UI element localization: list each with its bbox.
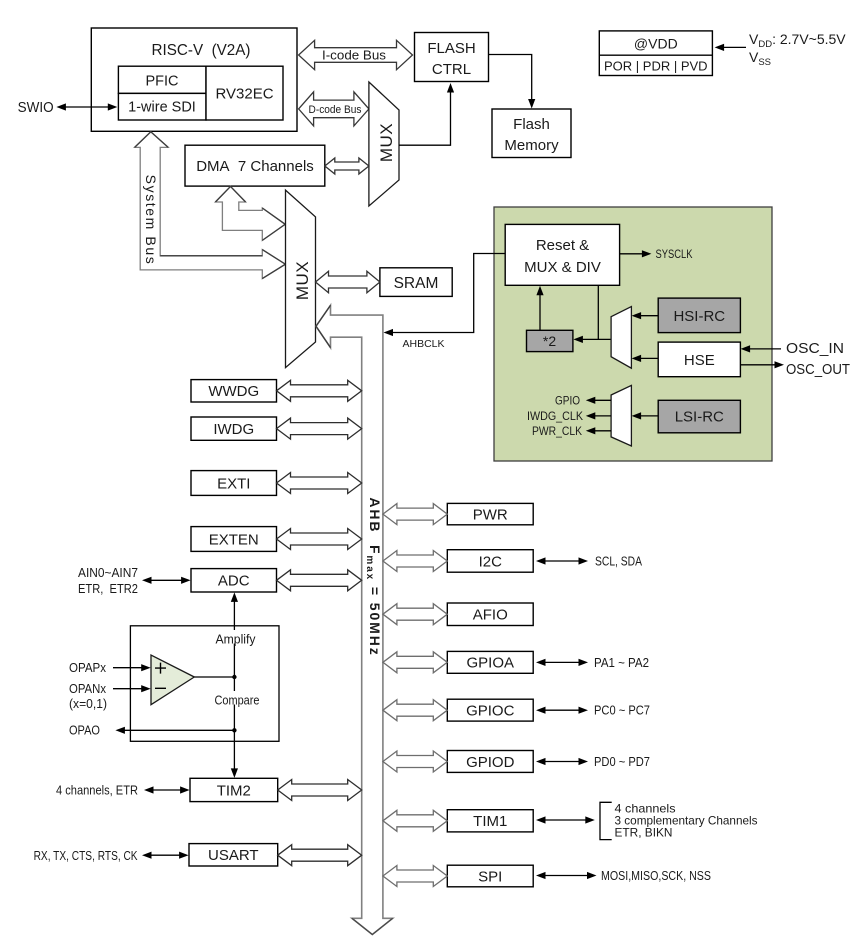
label plus input	[155, 663, 166, 674]
block RISC-V (V2A) CPU	[91, 28, 297, 131]
wire SWIO to 1-wire SDI	[56, 103, 117, 110]
svg-text:AHBCLK: AHBCLK	[403, 338, 445, 350]
svg-text:EXTI: EXTI	[217, 475, 250, 492]
svg-text:GPIO: GPIO	[555, 396, 580, 408]
bus AHB to SPI arrow	[383, 866, 447, 887]
block DMA 7 Channels	[185, 145, 325, 186]
bus AHB to GPIOD arrow	[383, 751, 447, 772]
svg-text:SCL, SDA: SCL, SDA	[595, 555, 643, 569]
svg-text:WWDG: WWDG	[208, 383, 259, 400]
block RV32EC	[206, 66, 283, 120]
bus I-code Bus arrow	[299, 40, 413, 69]
bus DMA to MUX1 arrow	[325, 158, 369, 174]
svg-text:PC0 ~ PC7: PC0 ~ PC7	[594, 704, 650, 718]
wire OPANx input	[113, 685, 151, 692]
bus ADC to AHB arrow	[277, 570, 362, 591]
bus AHB to GPIOA arrow	[383, 652, 447, 673]
block I2C	[447, 550, 533, 573]
svg-text:LSI-RC: LSI-RC	[675, 409, 724, 426]
bus AHB bottom head accent	[352, 918, 393, 934]
bus fork arrow to DMA and MUX2	[215, 186, 285, 240]
svg-text:MUX & DIV: MUX & DIV	[524, 259, 601, 276]
wire HSE to OSC_OUT	[740, 361, 784, 368]
svg-text:PFIC: PFIC	[145, 74, 178, 90]
svg-text:VDD: 2.7V~5.5V: VDD: 2.7V~5.5V	[749, 31, 846, 50]
svg-text:Amplify: Amplify	[216, 633, 257, 647]
wire TIM1 pins	[536, 816, 595, 823]
svg-text:(x=0,1): (x=0,1)	[69, 697, 107, 711]
bus MUX2 to SRAM arrow	[316, 271, 380, 292]
wire Reset box to AHBCLK	[384, 254, 506, 337]
svg-text:IWDG: IWDG	[213, 421, 254, 438]
block PFIC	[118, 66, 206, 93]
bus D-code Bus arrow	[299, 92, 369, 126]
svg-text:GPIOA: GPIOA	[466, 655, 514, 672]
wire SYSCLK	[620, 250, 652, 257]
svg-text:SWIO: SWIO	[18, 100, 54, 116]
wire MUX1 to FLASH CTRL	[399, 83, 454, 145]
bus USART to AHB arrow	[278, 845, 362, 866]
svg-text:SPI: SPI	[478, 868, 502, 885]
svg-text:DMA 7 Channels: DMA 7 Channels	[196, 158, 314, 175]
svg-text:RX, TX, CTS, RTS, CK: RX, TX, CTS, RTS, CK	[34, 849, 139, 863]
svg-text:OSC_IN: OSC_IN	[786, 341, 844, 357]
svg-text:ETR, ETR2: ETR, ETR2	[78, 582, 138, 596]
block HSE	[658, 342, 740, 377]
block EXTEN	[191, 527, 277, 552]
svg-text:HSE: HSE	[684, 352, 715, 369]
svg-text:HSI-RC: HSI-RC	[673, 308, 725, 325]
label Amplify	[211, 630, 260, 647]
svg-text:OPAO: OPAO	[69, 724, 100, 738]
block GPIOC	[447, 699, 533, 721]
block SRAM	[380, 268, 452, 297]
bus AHB head accent at MUX2	[316, 305, 331, 347]
wire mux to IWDG_CLK	[586, 412, 611, 419]
node OPAO junction	[232, 728, 236, 732]
svg-text:ADC: ADC	[218, 573, 250, 590]
wire GPIOC pins	[536, 707, 588, 714]
block IWDG	[191, 417, 277, 440]
svg-text:TIM2: TIM2	[217, 782, 251, 799]
wire OPAPx input	[113, 664, 151, 671]
wire GPIOA pins	[536, 659, 588, 666]
block GPIOD	[447, 751, 533, 773]
svg-text:GPIOC: GPIOC	[466, 702, 515, 719]
svg-text:OPANx: OPANx	[69, 682, 107, 696]
wire fork head accents	[215, 186, 285, 240]
svg-text:OSC_OUT: OSC_OUT	[786, 362, 850, 378]
block USART	[189, 844, 278, 866]
block @VDD	[599, 31, 712, 76]
svg-text:PA1 ~ PA2: PA1 ~ PA2	[594, 656, 649, 670]
wire mux to PWR_CLK	[586, 427, 611, 434]
wire SPI pins	[536, 872, 597, 879]
svg-text:Memory: Memory	[504, 137, 559, 154]
block GPIOA	[447, 651, 533, 673]
block PWR	[447, 503, 533, 524]
svg-text:MUX: MUX	[293, 261, 312, 300]
wire OPAO output	[115, 727, 234, 734]
wire OSC_IN to HSE	[741, 345, 781, 352]
wire *2 to Reset box	[536, 286, 543, 331]
svg-text:EXTEN: EXTEN	[209, 531, 259, 548]
svg-text:RV32EC: RV32EC	[215, 86, 273, 103]
bus EXTI to AHB arrow	[277, 473, 362, 494]
svg-text:VSS: VSS	[749, 49, 771, 68]
svg-text:Flash: Flash	[513, 116, 550, 133]
wire System Bus head accents	[135, 132, 286, 279]
svg-text:MUX: MUX	[377, 123, 396, 162]
wire I2C pins	[536, 557, 588, 564]
svg-text:System Bus: System Bus	[143, 175, 159, 266]
bus IWDG to AHB arrow	[277, 418, 362, 439]
wire GPIOD pins	[536, 758, 588, 765]
block FLASH CTRL	[415, 33, 489, 82]
bus AHB to GPIOC arrow	[383, 700, 447, 721]
svg-text:PWR: PWR	[473, 506, 508, 523]
panel clock system (green)	[494, 207, 772, 461]
bus AHB to TIM1 arrow	[383, 810, 447, 831]
svg-text:GPIOD: GPIOD	[466, 754, 515, 771]
block Reset & MUX & DIV	[505, 224, 619, 285]
bus System Bus arrow	[135, 132, 286, 279]
svg-text:USART: USART	[208, 847, 259, 864]
block TIM2	[190, 778, 278, 801]
svg-text:1-wire SDI: 1-wire SDI	[128, 100, 196, 116]
mux MUX1 flash	[369, 82, 399, 206]
svg-text:ETR, BIKN: ETR, BIKN	[615, 826, 673, 840]
svg-text:*2: *2	[543, 333, 556, 349]
wire USART signals	[142, 852, 189, 859]
wire HSI mux to *2	[573, 336, 611, 343]
svg-text:FLASH: FLASH	[427, 40, 475, 57]
block opamp container	[130, 626, 279, 742]
svg-text:AFIO: AFIO	[473, 607, 508, 624]
block Flash Memory	[492, 109, 571, 158]
block EXTI	[191, 471, 277, 496]
node TIM1 bracket	[600, 802, 612, 839]
bus EXTEN to AHB arrow	[277, 529, 362, 550]
wire opamp output	[194, 676, 234, 678]
wire HSI-RC to mux	[632, 312, 659, 319]
block ADC	[191, 569, 277, 592]
bus WWDG to AHB arrow	[277, 380, 362, 401]
block 1-wire SDI	[118, 93, 206, 120]
wire mux to GPIO clock	[586, 397, 611, 404]
block LSI-RC	[658, 400, 740, 433]
svg-text:SYSCLK: SYSCLK	[656, 249, 693, 261]
svg-text:D-code Bus: D-code Bus	[309, 104, 362, 116]
svg-text:IWDG_CLK: IWDG_CLK	[527, 411, 583, 423]
wire HSE to mux	[632, 355, 659, 362]
svg-text:PWR_CLK: PWR_CLK	[532, 426, 582, 438]
block WWDG	[191, 380, 277, 402]
mux LSI clock mux	[611, 385, 631, 446]
svg-text:SRAM: SRAM	[394, 275, 439, 292]
mux MUX2 AHB	[286, 190, 316, 368]
svg-text:TIM1: TIM1	[473, 813, 507, 830]
node opamp output junction	[232, 675, 236, 679]
wire LSI-RC to mux	[632, 412, 659, 419]
svg-text:OPAPx: OPAPx	[69, 661, 107, 675]
wire Reset box down to mux output	[597, 285, 599, 339]
label Compare	[212, 691, 264, 708]
wire FLASH CTRL to Flash Memory	[489, 55, 536, 109]
block *2 multiplier	[527, 330, 573, 351]
bus AHB to PWR arrow	[383, 504, 447, 525]
block HSI-RC	[658, 298, 740, 333]
wire ADC to TIM2 vertical	[231, 592, 238, 778]
svg-text:POR | PDR | PVD: POR | PDR | PVD	[604, 59, 708, 74]
svg-text:PD0 ~ PD7: PD0 ~ PD7	[594, 755, 650, 769]
svg-text:I2C: I2C	[479, 553, 503, 570]
svg-text:CTRL: CTRL	[432, 61, 471, 78]
block TIM1	[447, 810, 533, 832]
bus AHB to AFIO arrow	[383, 604, 447, 625]
bus AHB vertical arrow	[316, 305, 393, 934]
svg-text:AIN0~AIN7: AIN0~AIN7	[78, 566, 138, 580]
wire TIM2 channels	[144, 786, 190, 793]
mux HSI/HSE clock mux	[611, 307, 631, 369]
svg-text:Compare: Compare	[215, 694, 260, 708]
svg-text:MOSI,MISO,SCK, NSS: MOSI,MISO,SCK, NSS	[601, 869, 711, 883]
op-amp OPA triangle	[151, 655, 194, 705]
svg-text:RISC-V (V2A): RISC-V (V2A)	[152, 42, 251, 59]
svg-text:Reset &: Reset &	[536, 237, 589, 254]
svg-text:I-code Bus: I-code Bus	[322, 48, 387, 63]
bus TIM2 to AHB arrow	[278, 780, 362, 801]
wire ADC analog inputs	[142, 577, 191, 584]
wire VDD to @VDD	[715, 44, 746, 51]
label minus input	[155, 687, 166, 689]
block AFIO	[447, 603, 533, 626]
svg-text:4 channels, ETR: 4 channels, ETR	[56, 784, 138, 798]
block SPI	[447, 865, 533, 887]
bus AHB to I2C arrow	[383, 551, 447, 572]
svg-text:@VDD: @VDD	[634, 36, 678, 52]
